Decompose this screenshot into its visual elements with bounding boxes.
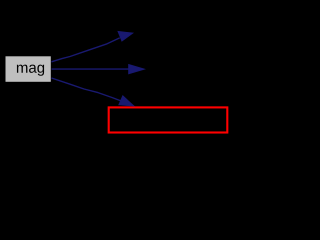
node truncated (red outline box) xyxy=(109,107,228,132)
wire edge 2: mag to middle node xyxy=(52,65,145,74)
arrowhead edge 2 xyxy=(129,65,145,74)
node mag (grey box) xyxy=(6,56,51,82)
arrowhead edge 1 xyxy=(118,32,133,42)
wire edge 3: mag to red node xyxy=(52,78,134,106)
wire edge 1: mag to top node xyxy=(52,32,133,62)
arrowhead edge 3 xyxy=(119,96,134,106)
